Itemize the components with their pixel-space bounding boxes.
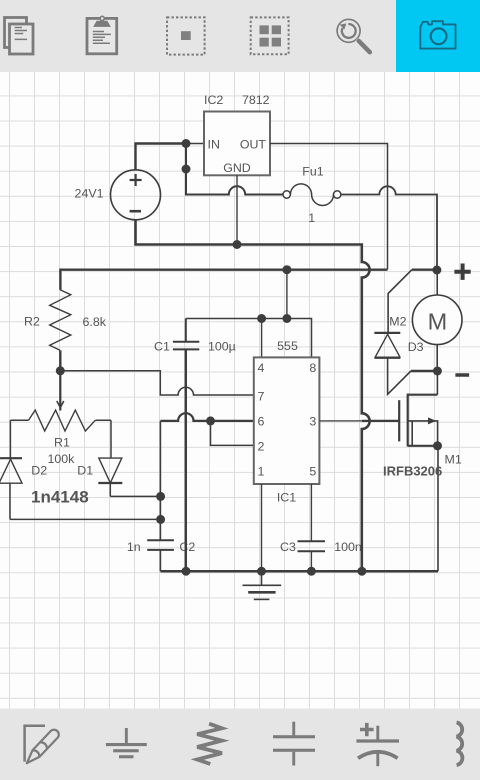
svg-text:5: 5 <box>309 465 316 479</box>
wire pin 3 to gate <box>319 420 361 422</box>
diode D3 (M2) flyback <box>374 270 437 395</box>
voltage source 24V1 <box>75 170 161 220</box>
svg-text:6.8k: 6.8k <box>83 315 107 329</box>
icon inductor <box>457 722 463 765</box>
node IN junction <box>182 139 191 148</box>
node D2 junction <box>156 515 165 524</box>
svg-text:7812: 7812 <box>242 93 270 107</box>
wire pin 6 run <box>160 413 253 421</box>
wire 24V+ to IN node <box>136 144 187 170</box>
icon multi-select <box>251 17 289 54</box>
icon resistor <box>197 724 222 764</box>
capacitor C1 100u <box>154 319 236 572</box>
motor M <box>412 270 462 371</box>
regulator IC2 7812 <box>204 93 270 175</box>
wire node to fuse feed <box>186 144 283 195</box>
svg-text:555: 555 <box>277 339 298 353</box>
mosfet M1 <box>383 371 462 479</box>
svg-text:100n: 100n <box>334 540 362 554</box>
node pins 2-6 <box>206 416 215 425</box>
node pin1 ground <box>257 567 266 576</box>
svg-text:D3: D3 <box>408 340 424 354</box>
svg-text:R2: R2 <box>24 315 40 329</box>
svg-text:D1: D1 <box>77 464 93 478</box>
diode D1 <box>77 458 122 496</box>
svg-text:1: 1 <box>308 211 315 225</box>
node below IN <box>182 165 191 174</box>
svg-text:6: 6 <box>258 415 265 429</box>
svg-text:C3: C3 <box>280 540 296 554</box>
op timer IC1 555 <box>254 339 320 504</box>
icon ground <box>106 728 147 758</box>
svg-text:OUT: OUT <box>240 137 267 151</box>
bottom toolbar <box>0 709 480 780</box>
svg-text:1n4148: 1n4148 <box>31 488 89 507</box>
wire +12V down to 555 pins rail <box>286 270 288 319</box>
wire pin 5 to C3 <box>310 484 312 541</box>
node supply <box>282 314 291 323</box>
wire pin 2 to pin 6 <box>211 421 254 446</box>
fuse Fu1 <box>283 165 341 226</box>
wire fuse to motor + terminal <box>341 186 437 269</box>
svg-text:M: M <box>428 308 448 334</box>
svg-text:C1: C1 <box>154 339 170 353</box>
icon copy <box>5 18 34 55</box>
wire 555 supply rail pins 4,8 <box>186 319 312 358</box>
wire ground rail <box>160 570 438 573</box>
svg-text:IN: IN <box>208 137 220 151</box>
camera button highlight <box>396 0 480 72</box>
wire IC2 GND stub <box>236 175 238 244</box>
wire OUT to +12V rail <box>270 144 388 270</box>
wire rail up to MOSFET source <box>437 446 439 571</box>
svg-text:GND: GND <box>223 161 251 175</box>
wire D1 to node <box>110 495 160 497</box>
icon camera <box>420 21 455 48</box>
wire D2 to node <box>10 518 161 520</box>
node MOSFET source <box>433 441 442 450</box>
diode D2 <box>0 458 47 519</box>
potentiometer R1 100k <box>10 371 111 466</box>
svg-text:IC2: IC2 <box>204 93 223 107</box>
wire IN stub <box>186 143 204 145</box>
svg-text:7: 7 <box>258 390 265 404</box>
node D1 junction <box>156 492 165 501</box>
capacitor C3 100n <box>280 540 362 571</box>
top toolbar <box>0 0 480 72</box>
wire 24V- rail with hops <box>136 220 370 571</box>
svg-text:2: 2 <box>258 439 265 453</box>
node 24V- ground <box>357 567 366 576</box>
svg-text:IRFB3206: IRFB3206 <box>383 464 442 479</box>
node R2 bottom <box>56 366 65 375</box>
icon zoom reset <box>337 19 370 52</box>
svg-text:3: 3 <box>309 415 316 429</box>
icon draw/edit <box>23 726 60 767</box>
svg-text:100µ: 100µ <box>208 340 236 354</box>
svg-text:R1: R1 <box>54 436 70 450</box>
svg-text:C2: C2 <box>179 540 195 554</box>
node pin 4 <box>257 314 266 323</box>
node IC2 GND on 0V rail <box>233 240 242 249</box>
svg-text:D2: D2 <box>31 464 47 478</box>
svg-text:M1: M1 <box>445 452 462 466</box>
wire pin 1 to ground <box>261 484 263 571</box>
wire R2 to pin 7 <box>60 371 254 395</box>
svg-text:IC1: IC1 <box>277 490 296 504</box>
svg-text:8: 8 <box>309 361 316 375</box>
node motor + <box>432 266 441 275</box>
node C1 ground <box>182 567 191 576</box>
ground <box>243 571 282 599</box>
svg-text:24V1: 24V1 <box>75 187 104 201</box>
node C3 ground <box>307 567 316 576</box>
icon select <box>167 17 205 54</box>
resistor R2 6.8k <box>24 290 107 371</box>
svg-text:M2: M2 <box>389 314 406 328</box>
node motor - <box>433 367 442 376</box>
node +12V to 555 supply <box>282 265 291 274</box>
svg-text:100k: 100k <box>48 452 76 466</box>
wire pin 4 stub <box>261 319 263 358</box>
wire pin6 node down to C2 <box>159 421 161 540</box>
svg-text:Fu1: Fu1 <box>302 165 323 179</box>
icon polarized capacitor <box>356 723 399 766</box>
icon capacitor <box>273 722 315 766</box>
icon clipboard <box>87 16 117 54</box>
terminal + <box>454 264 470 280</box>
svg-text:1: 1 <box>258 465 265 479</box>
terminal - <box>455 373 469 377</box>
capacitor C2 1n <box>127 540 195 571</box>
svg-text:1n: 1n <box>127 540 141 554</box>
svg-text:4: 4 <box>258 361 265 375</box>
wire +12V rail <box>60 270 387 290</box>
